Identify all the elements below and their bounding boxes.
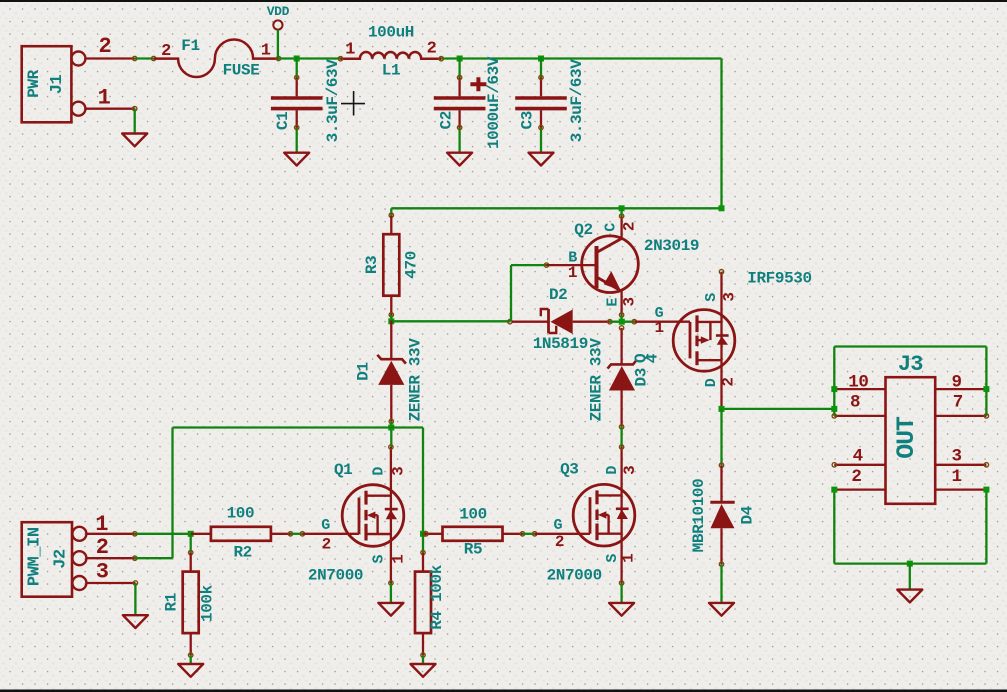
wire drain to D4 bbox=[720, 409, 722, 465]
inductor L1 bbox=[341, 52, 442, 59]
Q3 source pin end bbox=[619, 581, 623, 585]
ground at J3 bbox=[897, 590, 922, 603]
L1 pin 2 end bbox=[439, 57, 443, 61]
resistor R3 bbox=[383, 215, 399, 318]
J2 pin 1 lead bbox=[86, 533, 134, 535]
ground at C2 bbox=[447, 153, 472, 166]
svg-text:100: 100 bbox=[227, 504, 255, 522]
wire R3 to node bbox=[390, 315, 392, 322]
Q2 emitter pin end bbox=[619, 313, 623, 317]
wire J3 left bottom drop bbox=[833, 490, 835, 564]
ground at C1 bbox=[284, 153, 309, 166]
svg-text:3: 3 bbox=[621, 297, 639, 306]
svg-text:Q3: Q3 bbox=[560, 460, 578, 478]
svg-text:100k: 100k bbox=[428, 564, 446, 602]
svg-text:R3: R3 bbox=[363, 256, 381, 274]
IRF9530 source pin end bbox=[719, 270, 723, 274]
wire D2 anode to gate node bbox=[610, 321, 635, 323]
svg-text:1: 1 bbox=[261, 41, 271, 60]
diode D1 zener bbox=[377, 321, 406, 422]
junction J3 ground tap bbox=[907, 561, 913, 567]
R5 pin 1 end bbox=[424, 532, 428, 536]
wire R4 to ground bbox=[422, 655, 424, 664]
diode D2 1N5819 bbox=[512, 309, 610, 334]
wire J1 pin1 to ground bbox=[134, 109, 136, 134]
top black border bar bbox=[0, 0, 1007, 2]
J1 pin 1 end bbox=[133, 107, 137, 111]
diode D3 zener bbox=[608, 328, 637, 427]
junction J3 pin 8 node bbox=[831, 406, 837, 412]
transistor IRF9530 bbox=[673, 310, 735, 372]
capacitor C2 bbox=[434, 57, 486, 153]
junction J3 pin 1 bbox=[983, 487, 989, 493]
svg-text:S: S bbox=[371, 555, 388, 564]
svg-text:1: 1 bbox=[389, 555, 407, 564]
J3 pin 2 lead bbox=[834, 488, 885, 490]
svg-text:3: 3 bbox=[389, 467, 407, 476]
wire J1 pin2 to F1 bbox=[135, 57, 154, 59]
svg-text:1: 1 bbox=[95, 512, 108, 537]
J2 pin 2 end bbox=[133, 556, 137, 560]
capacitor C3 bbox=[515, 57, 567, 153]
wire J3 right top drop bbox=[985, 347, 987, 416]
wire IRF drain to J3 bbox=[722, 408, 835, 410]
svg-text:D4: D4 bbox=[739, 505, 757, 524]
wire long horizontal bbox=[173, 426, 424, 428]
junction J3 pin 10 bbox=[831, 386, 837, 392]
svg-text:1: 1 bbox=[345, 41, 355, 60]
Q1 gate lead bbox=[302, 533, 359, 535]
wire Q3 source to ground bbox=[620, 583, 622, 603]
svg-text:C3: C3 bbox=[519, 111, 537, 129]
connector J3 body bbox=[886, 377, 936, 504]
J1 pin 2 end bbox=[133, 56, 137, 60]
R3 pin 1 end bbox=[389, 213, 393, 217]
svg-text:3.3uF/63V: 3.3uF/63V bbox=[324, 59, 342, 143]
wire VDD stem bbox=[277, 30, 279, 59]
transistor Q1 2N7000 bbox=[342, 485, 404, 547]
connector J2 body bbox=[22, 522, 72, 597]
svg-text:7: 7 bbox=[953, 392, 963, 412]
svg-text:ZENER 33V: ZENER 33V bbox=[407, 338, 425, 422]
wire D3 to Q3 drain bbox=[620, 427, 622, 447]
J1 pin 2 circle bbox=[71, 52, 85, 66]
D2 cathode pin end bbox=[508, 320, 512, 324]
svg-text:D3: D3 bbox=[633, 368, 651, 386]
D2 anode pin end bbox=[608, 320, 612, 324]
svg-text:2: 2 bbox=[621, 222, 639, 231]
svg-text:8: 8 bbox=[850, 392, 860, 412]
svg-text:IRF9530: IRF9530 bbox=[747, 270, 811, 288]
ground at Q1 bbox=[378, 603, 403, 616]
IRF9530 source-drain rail bbox=[720, 272, 722, 409]
power symbol VDD bbox=[273, 20, 282, 29]
svg-text:D: D bbox=[371, 467, 388, 476]
svg-text:J2: J2 bbox=[51, 549, 70, 569]
capacitor C3 pin 2 end bbox=[539, 125, 543, 129]
L1 pin 1 end bbox=[338, 57, 342, 61]
junction C1 tap bbox=[294, 56, 300, 62]
svg-text:ZENER 33V: ZENER 33V bbox=[588, 338, 606, 422]
Q3 drain pin end bbox=[619, 445, 623, 449]
svg-text:MBR10100: MBR10100 bbox=[690, 479, 708, 553]
ground at R4 bbox=[411, 664, 436, 677]
capacitor C2 pin 1 end bbox=[457, 75, 461, 79]
svg-text:S: S bbox=[703, 293, 720, 302]
R2 pin 2 end bbox=[288, 532, 292, 536]
junction R5/R4 node bbox=[420, 531, 426, 537]
wire Q1 source to ground bbox=[390, 583, 392, 603]
resistor R1 bbox=[183, 553, 199, 656]
wire R2 to Q1 gate bbox=[291, 533, 303, 535]
svg-text:2: 2 bbox=[555, 533, 564, 551]
svg-text:J3: J3 bbox=[898, 352, 923, 377]
svg-text:2N7000: 2N7000 bbox=[547, 566, 602, 584]
svg-text:100uH: 100uH bbox=[368, 24, 414, 42]
junction R2/R1 node bbox=[188, 531, 194, 537]
svg-text:1: 1 bbox=[568, 264, 577, 282]
svg-text:R2: R2 bbox=[233, 544, 251, 562]
junction IRF drain node bbox=[719, 406, 725, 412]
R5 pin 2 end bbox=[520, 532, 524, 536]
IRF9530 gate lead bbox=[634, 321, 690, 323]
wire node to R1 bbox=[190, 534, 192, 553]
svg-text:D1: D1 bbox=[355, 362, 373, 380]
J3 pin 4 lead bbox=[834, 464, 885, 466]
svg-text:2N7000: 2N7000 bbox=[308, 567, 363, 585]
wire R5 to Q3 gate bbox=[523, 533, 535, 535]
resistor R5 bbox=[423, 527, 523, 541]
transistor Q3 2N7000 bbox=[573, 484, 635, 546]
svg-text:1: 1 bbox=[620, 554, 638, 563]
D4 anode pin end bbox=[719, 562, 723, 566]
Q1 drain-source rail bbox=[390, 447, 392, 583]
Q1 source pin end bbox=[389, 581, 393, 585]
J3 pin 10 lead bbox=[834, 388, 885, 390]
wire J3 right bottom drop bbox=[985, 490, 987, 564]
svg-text:PWR: PWR bbox=[25, 69, 43, 97]
wire J3 to ground bbox=[909, 564, 911, 590]
C2 polarity plus bbox=[470, 77, 486, 91]
wire VDD rail right bbox=[441, 57, 721, 59]
cursor crosshair bbox=[341, 91, 365, 116]
svg-text:4: 4 bbox=[643, 353, 661, 363]
D3 cathode pin end bbox=[619, 326, 623, 330]
svg-text:Q2: Q2 bbox=[574, 221, 592, 239]
wire mid rail bbox=[391, 207, 721, 209]
resistor R2 bbox=[191, 527, 291, 541]
svg-text:1: 1 bbox=[654, 319, 663, 337]
J2 pin 1 end bbox=[133, 532, 137, 536]
J1 pin 2 lead bbox=[85, 57, 134, 59]
svg-text:10: 10 bbox=[848, 372, 868, 392]
wire J2.3 to ground bbox=[134, 583, 136, 615]
R1 pin 1 end bbox=[189, 550, 193, 554]
svg-text:R5: R5 bbox=[464, 541, 482, 559]
wire Q2 base drop bbox=[510, 265, 512, 321]
junction D1 node bbox=[388, 425, 394, 431]
J2 pin 3 circle bbox=[72, 576, 86, 590]
J3 pin 7 end bbox=[984, 414, 988, 418]
svg-text:100: 100 bbox=[459, 505, 487, 523]
junction R3/D1 node bbox=[388, 318, 394, 324]
svg-text:3: 3 bbox=[96, 559, 109, 584]
F1 pin 2 end bbox=[151, 56, 155, 60]
svg-text:Q1: Q1 bbox=[334, 461, 352, 479]
junction J3 pin 2 bbox=[831, 487, 837, 493]
svg-text:100k: 100k bbox=[198, 584, 216, 622]
wire node to R4 bbox=[422, 534, 424, 553]
junction rail corner bbox=[719, 205, 725, 211]
svg-text:C: C bbox=[603, 223, 620, 232]
capacitor C2 pin 2 end bbox=[457, 125, 461, 129]
ground at R1 bbox=[178, 664, 203, 677]
wire J2.2 link bbox=[135, 557, 173, 559]
wire J2.1 to R2 node bbox=[135, 533, 191, 535]
svg-text:L1: L1 bbox=[382, 61, 400, 79]
bottom black border bar bbox=[0, 690, 1007, 692]
svg-text:1000uF/63V: 1000uF/63V bbox=[485, 56, 503, 149]
J3 pin 4 end bbox=[832, 463, 836, 467]
wire Q2 emitter link bbox=[620, 315, 622, 322]
Q1 gate pin end bbox=[300, 532, 304, 536]
Q2 base pin end bbox=[544, 263, 548, 267]
wire drop to R3 bbox=[390, 208, 392, 215]
J3 pin 8 lead bbox=[834, 415, 885, 417]
wire J3 top rail bbox=[834, 345, 986, 347]
svg-text:D: D bbox=[703, 378, 720, 387]
junction C2 tap bbox=[457, 56, 463, 62]
J2 pin 2 circle bbox=[72, 551, 86, 565]
capacitor C3 pin 1 end bbox=[539, 75, 543, 79]
Q2 collector pin end bbox=[619, 214, 623, 218]
svg-text:F1: F1 bbox=[181, 37, 199, 55]
Q1 drain pin end bbox=[389, 445, 393, 449]
svg-text:3: 3 bbox=[621, 466, 639, 475]
ground at Q3 bbox=[609, 603, 634, 616]
ground at D4 bbox=[709, 603, 734, 616]
ground at C3 bbox=[529, 153, 554, 166]
J3 pin 3 lead bbox=[935, 464, 986, 466]
wire R3 node to D2 bbox=[391, 320, 510, 322]
junction gate node bbox=[619, 319, 625, 325]
svg-text:R4: R4 bbox=[428, 611, 446, 630]
svg-text:R1: R1 bbox=[163, 593, 181, 611]
svg-text:E: E bbox=[604, 298, 621, 307]
svg-text:2: 2 bbox=[98, 34, 111, 59]
svg-text:D2: D2 bbox=[549, 286, 567, 304]
F1 pin 1 end bbox=[276, 56, 280, 60]
ground at J2 bbox=[123, 615, 148, 628]
D1 anode pin end bbox=[389, 419, 393, 423]
D3 anode pin end bbox=[619, 425, 623, 429]
svg-text:470: 470 bbox=[403, 251, 421, 279]
Q3 gate lead bbox=[535, 533, 590, 535]
svg-text:FUSE: FUSE bbox=[223, 61, 260, 79]
svg-text:2: 2 bbox=[720, 377, 738, 386]
R1 pin 2 end bbox=[189, 653, 193, 657]
svg-text:C2: C2 bbox=[437, 111, 455, 129]
connector J1 body bbox=[22, 46, 72, 122]
R4 pin 2 end bbox=[421, 653, 425, 657]
svg-text:OUT: OUT bbox=[892, 416, 921, 459]
wire J3 bottom rail bbox=[834, 562, 986, 564]
svg-text:VDD: VDD bbox=[267, 4, 290, 19]
wire VDD rail left bbox=[279, 57, 341, 59]
svg-text:J1: J1 bbox=[48, 75, 67, 95]
Q3 drain-source rail bbox=[620, 447, 622, 583]
wire Q2 collector link bbox=[620, 208, 622, 216]
junction C3 tap bbox=[538, 56, 544, 62]
svg-text:3: 3 bbox=[951, 446, 961, 466]
R3 pin 2 end bbox=[389, 313, 393, 317]
svg-text:D: D bbox=[604, 466, 621, 475]
Q3 gate pin end bbox=[533, 532, 537, 536]
D4 cathode pin end bbox=[719, 463, 723, 467]
capacitor C1 pin 2 end bbox=[295, 125, 299, 129]
svg-text:C1: C1 bbox=[274, 112, 292, 130]
wire drop to J2 pin2 bbox=[171, 428, 173, 559]
R4 pin 1 end bbox=[421, 550, 425, 554]
svg-text:9: 9 bbox=[951, 372, 961, 392]
wire D1 to Q1 drain bbox=[390, 421, 392, 447]
J1 pin 1 lead bbox=[85, 108, 134, 110]
svg-text:2: 2 bbox=[96, 535, 109, 560]
svg-text:3.3uF/63V: 3.3uF/63V bbox=[568, 59, 586, 143]
resistor R4 bbox=[415, 553, 431, 656]
J3 pin 8 end bbox=[832, 414, 836, 418]
J2 pin 2 lead bbox=[86, 557, 134, 559]
J3 pin 9 lead bbox=[935, 388, 986, 390]
svg-text:G: G bbox=[553, 517, 562, 534]
wire R1 to ground bbox=[190, 655, 192, 664]
svg-text:1N5819: 1N5819 bbox=[533, 335, 588, 353]
capacitor C1 pin 1 end bbox=[295, 75, 299, 79]
svg-text:PWM_IN: PWM_IN bbox=[25, 527, 44, 586]
svg-text:G: G bbox=[321, 517, 330, 534]
IRF9530 gate pin end bbox=[632, 320, 636, 324]
capacitor C1 bbox=[271, 57, 323, 153]
junction Q2 collector tap bbox=[619, 205, 625, 211]
J3 pin 3 end bbox=[984, 463, 988, 467]
wire rail right drop bbox=[720, 59, 722, 209]
J3 pin 7 lead bbox=[935, 415, 986, 417]
J2 pin 1 circle bbox=[72, 527, 86, 541]
svg-text:2: 2 bbox=[427, 40, 437, 59]
diode D4 MBR10100 bbox=[710, 465, 734, 564]
wire drop to R5 node bbox=[422, 428, 424, 534]
svg-text:3: 3 bbox=[721, 292, 739, 301]
J2 pin 3 end bbox=[133, 581, 137, 585]
transistor Q2 2N3019 bbox=[547, 216, 639, 315]
junction J3 pin 9 bbox=[983, 386, 989, 392]
ground at J1 bbox=[122, 134, 147, 147]
svg-text:1: 1 bbox=[951, 467, 961, 487]
wire D4 to ground bbox=[720, 564, 722, 603]
J3 pin 1 lead bbox=[935, 488, 986, 490]
svg-text:1: 1 bbox=[98, 85, 111, 110]
svg-text:2: 2 bbox=[851, 467, 861, 487]
fuse F1 bbox=[154, 39, 279, 76]
J1 pin 1 circle bbox=[71, 102, 85, 116]
svg-text:2: 2 bbox=[161, 42, 171, 61]
svg-text:2N3019: 2N3019 bbox=[644, 237, 699, 255]
wire J3 left top drop bbox=[833, 347, 835, 416]
J2 pin 3 lead bbox=[86, 582, 135, 584]
svg-text:2: 2 bbox=[322, 535, 331, 553]
svg-text:4: 4 bbox=[853, 446, 863, 466]
wire to Q2 base bbox=[511, 264, 547, 266]
